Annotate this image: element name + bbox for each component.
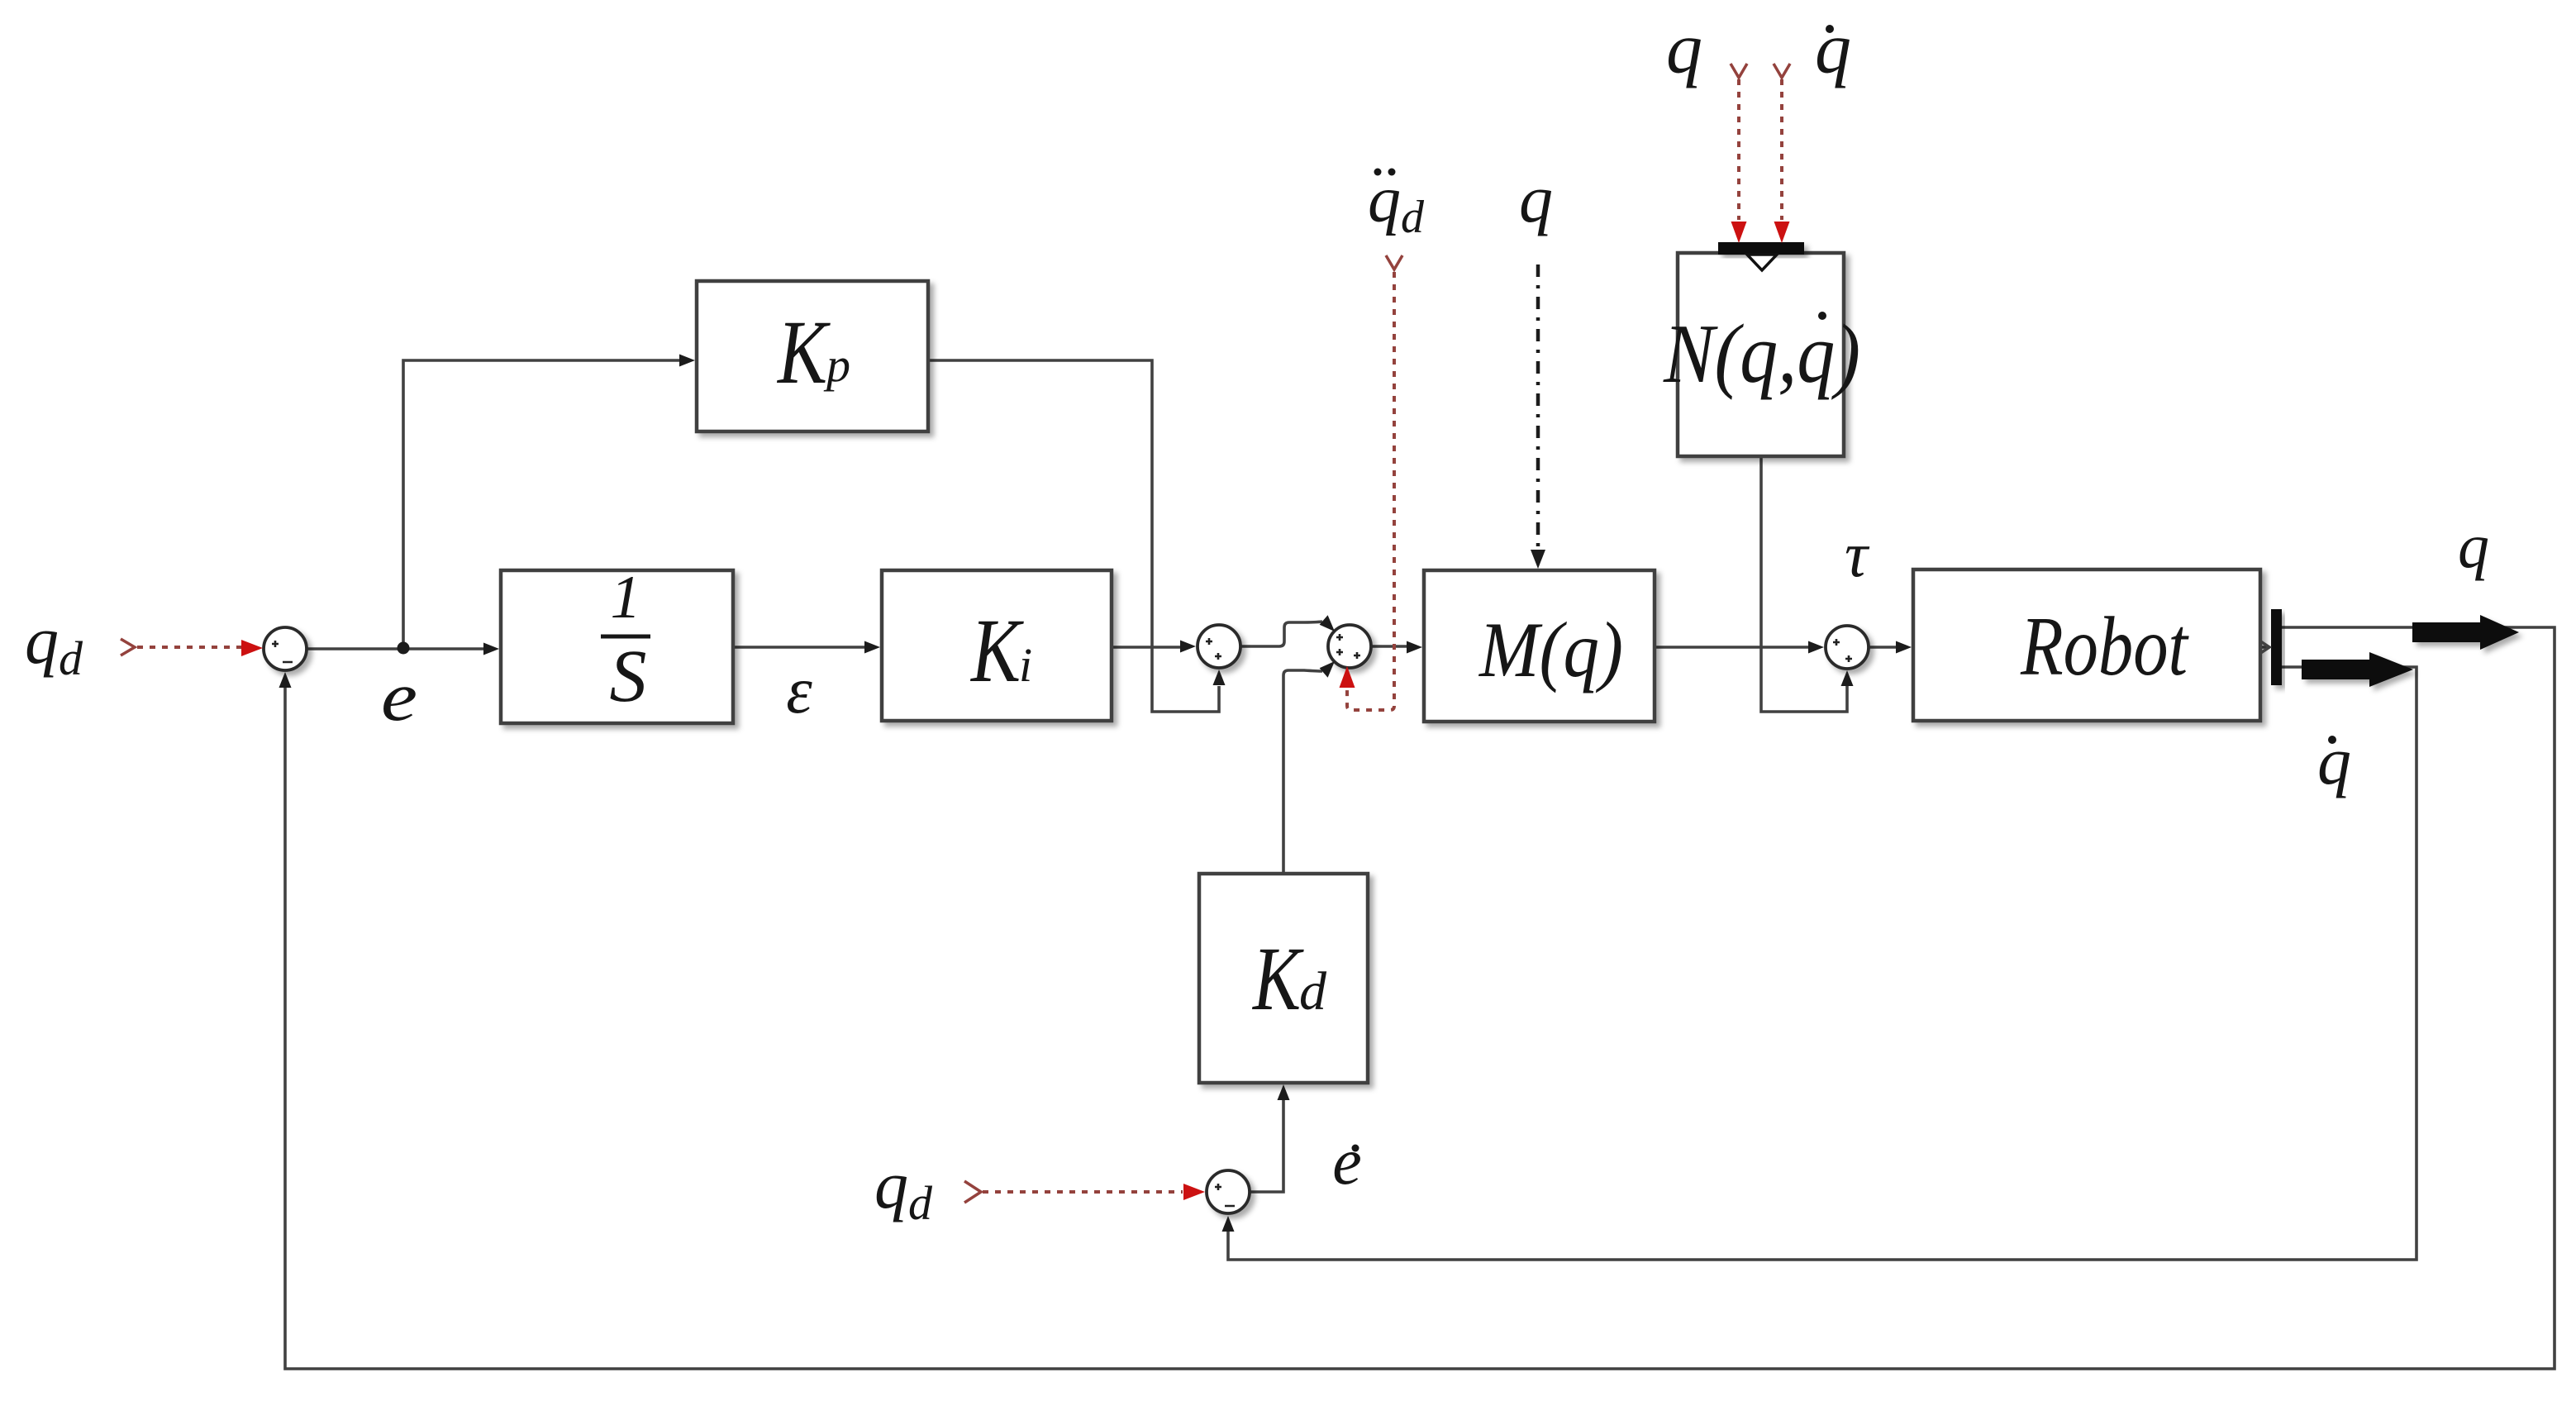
summing junction sum1 (Kp + Ki) (1198, 625, 1240, 668)
arrowhead into Kd bottom (1278, 1084, 1290, 1100)
svg-text:q: q (2317, 723, 2351, 798)
sum4 plus/minus marks (1215, 1184, 1235, 1206)
svg-text:τ: τ (1845, 518, 1870, 590)
svg-text:K: K (1251, 928, 1304, 1029)
wire sum0 output to 1/S with node e (307, 647, 484, 650)
arrowhead into Kp (679, 355, 695, 367)
block N(q,qdot) (1678, 253, 1844, 456)
red dashed wire qdd_d down and into sum2 bottom (1347, 272, 1394, 710)
wire Kd output up into sum2 lower merge (1283, 670, 1322, 874)
thick vector arrow qdot output (2302, 652, 2413, 687)
block Kd (1199, 874, 1368, 1083)
red arrowhead into sum2 bottom (1340, 666, 1355, 688)
open triangle under N bar (1747, 255, 1777, 270)
svg-text:q: q (1815, 9, 1851, 89)
summing junction sum2 (PID + qdd_d) (1328, 625, 1371, 668)
svg-text:e: e (1332, 1126, 1362, 1198)
svg-text:ε: ε (786, 655, 812, 727)
wire q output and outer feedback to sum0 (285, 627, 2555, 1369)
sum0 plus/minus marks (272, 641, 293, 662)
svg-text:S: S (610, 636, 647, 717)
svg-text:q: q (2458, 512, 2489, 581)
arrowhead into Ki (864, 641, 880, 654)
red dashed wire qd into sum0 (137, 646, 243, 649)
block Kp (697, 281, 928, 431)
arrowhead into sum1 bottom (1213, 670, 1226, 685)
open arrow Robot to mux bar (2259, 641, 2269, 654)
block Ki (882, 570, 1112, 721)
svg-text:e: e (381, 658, 417, 736)
red dashed wire q into N bar (1737, 79, 1740, 220)
wire M(q) output to sum3 (1655, 646, 1809, 649)
red start fork qdd_d (1386, 255, 1402, 269)
arrowhead into sum2 upper-left (1320, 615, 1335, 631)
wire branch node e up to Kp input (403, 360, 680, 649)
summing junction sum3 (M(q) + N) (1826, 626, 1869, 669)
wire sum2 output to M(q) (1371, 645, 1407, 648)
arrowhead into M(q) (1407, 641, 1422, 654)
svg-text:q: q (1519, 161, 1553, 236)
wire Robot output to mux bar (2260, 646, 2269, 649)
mux bar at Robot output (2271, 609, 2282, 685)
sum1 plus marks (1206, 638, 1221, 660)
block Robot (1913, 569, 2260, 721)
red dashed wire qd into sum4 (983, 1190, 1183, 1194)
red start fork q top (1731, 64, 1747, 78)
summing junction sum0 (position error) (264, 627, 307, 670)
arrowhead into sum3 left (1808, 641, 1824, 654)
wire N(q,qdot) output down into sum3 bottom (1761, 456, 1847, 712)
red arrowhead into sum4 (1183, 1184, 1205, 1200)
black dash-dot q input line to M(q) (1536, 264, 1540, 549)
svg-text:N(q,q): N(q,q) (1663, 307, 1860, 401)
wire sum3 output to Robot (1869, 646, 1898, 649)
arrowhead into sum4 bottom (qdot feedback) (1222, 1216, 1235, 1232)
sum3 plus marks (1833, 639, 1852, 662)
svg-text:Robot: Robot (2020, 600, 2189, 693)
svg-text:1: 1 (611, 564, 641, 631)
block 1/S integrator (501, 570, 733, 723)
svg-text:p: p (823, 338, 850, 392)
svg-text:K: K (969, 600, 1024, 701)
arrowhead into sum0 bottom (outer feedback) (279, 672, 292, 688)
red start fork qdot top (1774, 64, 1790, 78)
mux bar over N(q,qdot) (1718, 242, 1804, 255)
wire qdot output and feedback to sum4 (1228, 667, 2416, 1260)
red arrowhead onto N bar left (1731, 222, 1747, 243)
svg-text:q: q (1666, 9, 1702, 89)
svg-text:i: i (1019, 638, 1032, 692)
red dashed wire qdot into N bar (1780, 79, 1783, 220)
sum2 plus marks (1336, 634, 1360, 659)
wire Ki output to sum1 (1112, 646, 1181, 649)
svg-text:K: K (776, 302, 831, 403)
summing junction sum4 (velocity error) (1207, 1170, 1250, 1213)
svg-text:d: d (1299, 961, 1327, 1022)
node e junction dot (398, 642, 410, 655)
wire sum4 output up into Kd (1250, 1099, 1283, 1192)
wire 1/S output to Ki (733, 646, 865, 649)
red start fork qd bottom (964, 1181, 981, 1203)
wire sum1 output up into sum2 upper merge (1240, 622, 1322, 646)
wire Kp output down and into sum1 bottom (928, 360, 1219, 712)
arrowhead into 1/S (483, 643, 499, 655)
arrowhead into sum3 bottom (1841, 670, 1854, 686)
arrowhead into M(q) top (dash-dot q input) (1531, 550, 1545, 569)
red arrowhead onto N bar right (1774, 222, 1790, 243)
block M(q) (1424, 570, 1655, 722)
arrowhead into sum2 lower-left (1320, 661, 1335, 678)
red start fork qd left (121, 639, 135, 655)
thick vector arrow q output (2412, 615, 2519, 650)
red arrowhead into sum0 (241, 640, 263, 656)
arrowhead into Robot (1896, 641, 1912, 654)
svg-text:M(q): M(q) (1478, 606, 1623, 693)
arrowhead into sum1 left (1180, 641, 1196, 653)
